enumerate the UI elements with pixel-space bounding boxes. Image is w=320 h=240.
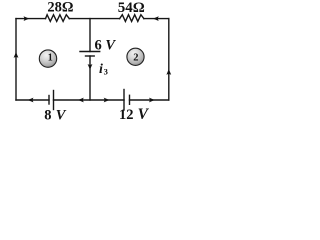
wire middle branch upper bbox=[89, 19, 91, 52]
resistor R1 28Ω zigzag bbox=[46, 15, 70, 22]
arrow current left on bottom-left wire outer bbox=[28, 98, 34, 103]
svg-text:1: 1 bbox=[48, 53, 53, 64]
wire bottom-middle segment bbox=[54, 99, 125, 101]
svg-text:V: V bbox=[138, 106, 150, 123]
battery B2 12V long plate bbox=[123, 90, 125, 111]
wire top-middle segment bbox=[69, 18, 119, 20]
arrow current right on bottom-right wire inner bbox=[104, 98, 110, 103]
wire top-left segment bbox=[16, 18, 46, 20]
wire left branch bbox=[15, 19, 17, 100]
wire top-right segment bbox=[144, 18, 169, 20]
wire right branch bbox=[168, 19, 170, 100]
svg-text:8: 8 bbox=[44, 107, 51, 123]
svg-text:54Ω: 54Ω bbox=[118, 0, 145, 16]
loop marker 2 sphere bbox=[127, 48, 144, 65]
svg-text:i: i bbox=[99, 62, 103, 77]
battery B3 6V long plate bbox=[80, 51, 100, 53]
arrow current up on left wire bbox=[14, 52, 19, 58]
wire bottom-right segment bbox=[130, 99, 169, 101]
resistor R2 54Ω zigzag bbox=[120, 15, 144, 22]
arrow current up on right wire bbox=[166, 69, 171, 75]
svg-text:V: V bbox=[105, 37, 116, 53]
svg-text:28Ω: 28Ω bbox=[47, 0, 73, 16]
battery B1 8V long plate bbox=[53, 91, 55, 110]
arrow current i3 down on middle branch bbox=[88, 64, 93, 70]
arrow current left on bottom-left wire inner bbox=[78, 98, 84, 103]
battery B2 12V short plate bbox=[129, 95, 131, 104]
wire middle branch lower bbox=[89, 56, 91, 100]
svg-text:12: 12 bbox=[119, 107, 134, 123]
battery B1 8V short plate bbox=[48, 96, 50, 105]
svg-text:V: V bbox=[56, 107, 67, 123]
battery B3 6V short plate bbox=[86, 55, 95, 57]
svg-text:3: 3 bbox=[104, 67, 108, 77]
svg-text:2: 2 bbox=[133, 52, 138, 63]
wire bottom-left segment bbox=[16, 99, 49, 101]
arrow current left on top-right wire bbox=[153, 16, 159, 21]
arrow current right on bottom-right wire outer bbox=[149, 98, 155, 103]
arrow current right on top-left wire bbox=[24, 16, 30, 21]
svg-text:6: 6 bbox=[95, 37, 102, 53]
loop marker 1 sphere bbox=[39, 50, 56, 67]
